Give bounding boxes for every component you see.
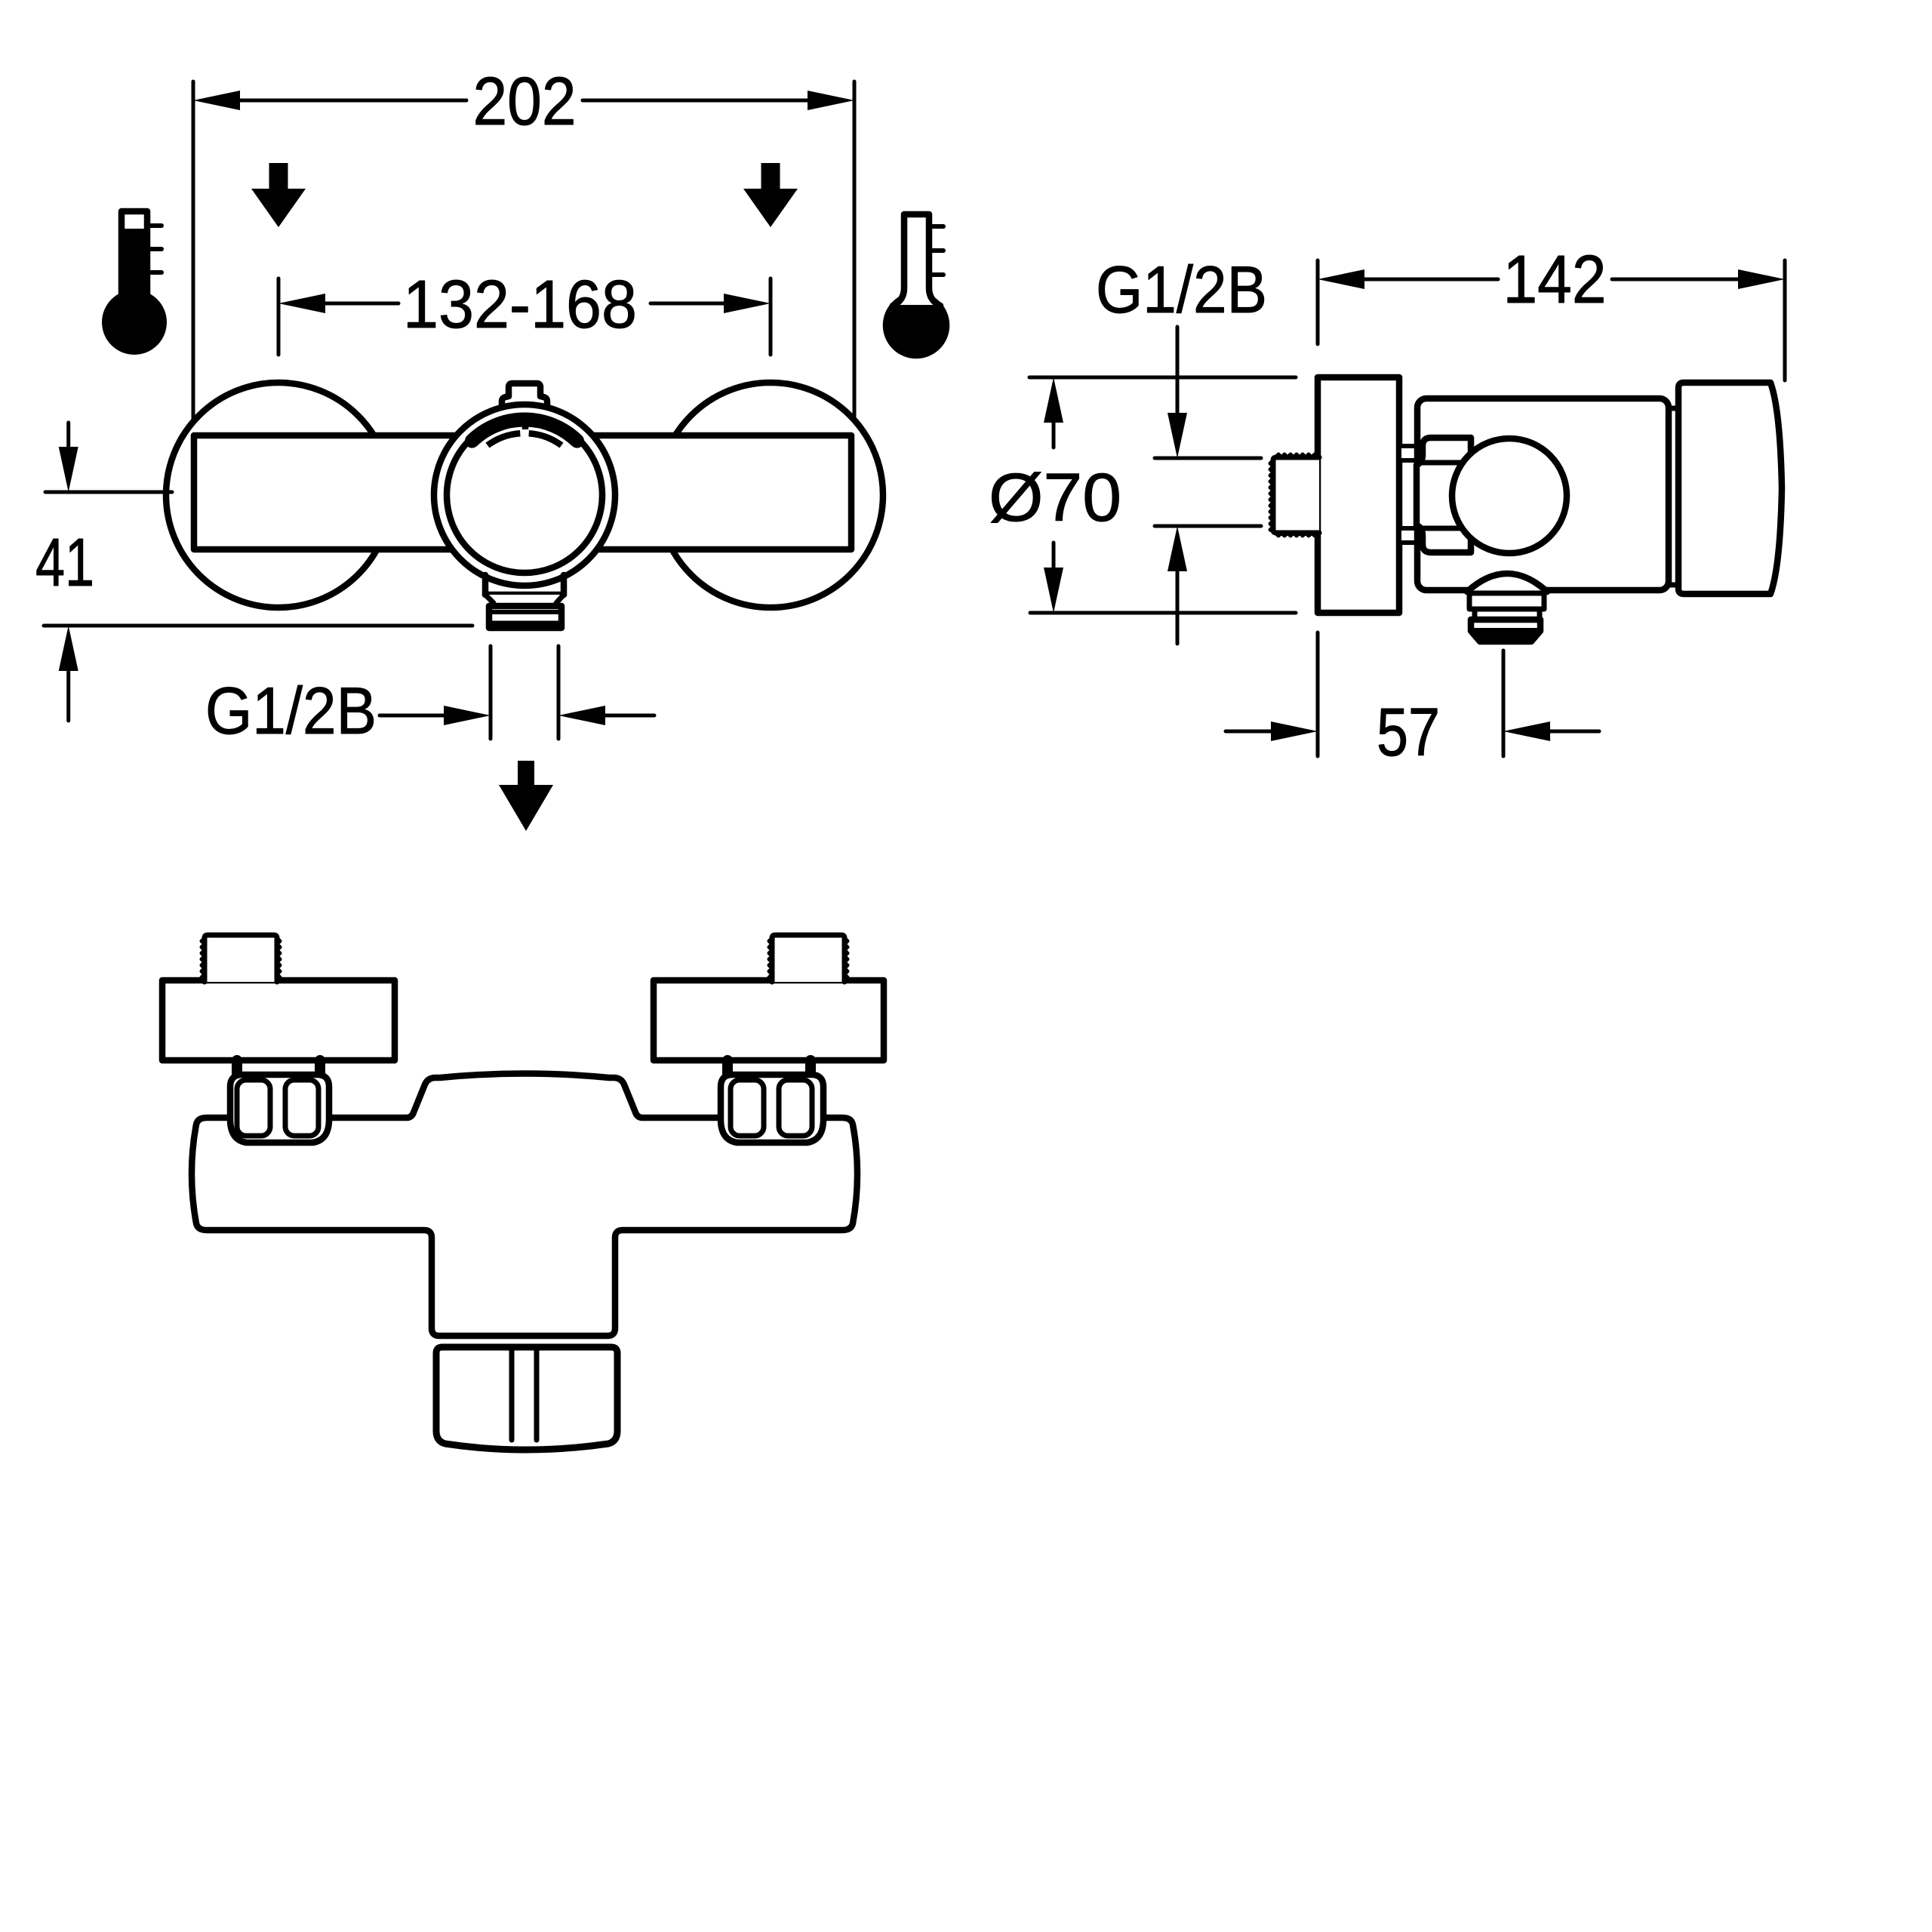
body T outline (top)	[192, 1074, 857, 1337]
outlet nut (top)	[436, 1347, 617, 1450]
svg-text:132-168: 132-168	[403, 267, 637, 343]
retaining C-ring thick arc (front)	[472, 420, 577, 441]
wall flange plate (side)	[1318, 377, 1399, 613]
C-ring inner thin arc left segment	[488, 433, 520, 445]
G1/2B callout arrows (side)	[1155, 327, 1261, 644]
outlet nut (front)	[489, 606, 561, 628]
outlet thread step (front)	[485, 595, 564, 606]
outlet nut (side)	[1471, 620, 1540, 641]
union hex nut left (top)	[230, 1075, 329, 1143]
valve body (side)	[1417, 398, 1669, 590]
dimension 202 arrowheads	[193, 91, 240, 110]
connector ticks body to knob (side)	[1669, 406, 1678, 411]
union hex nut right (top)	[721, 1075, 823, 1143]
C-ring inner thin arc right segment	[529, 433, 561, 445]
threaded pipe left (top)	[205, 935, 277, 982]
dimension 132-168 line	[278, 278, 771, 355]
thermometer hot (left)	[102, 211, 167, 355]
wall flange block right (top)	[654, 980, 884, 1060]
svg-text:G1/2B: G1/2B	[1096, 252, 1267, 327]
hot water inlet arrow (left)	[251, 163, 306, 227]
thread nubs left (top)	[232, 1060, 242, 1075]
C-ring split tick at 12 o'clock	[522, 417, 529, 429]
body bar (front)	[194, 435, 851, 549]
outlet dome (side)	[1467, 574, 1547, 592]
outlet step (side)	[1475, 609, 1540, 620]
valve cap tab (front)	[502, 383, 547, 407]
outlet neck (front)	[485, 575, 564, 595]
dim 41 line and arrows	[66, 423, 70, 721]
dim 57	[1226, 632, 1599, 756]
dimension 132-168 arrowheads	[278, 294, 325, 313]
inlet stubs between flange and body (side)	[1399, 446, 1419, 460]
temperature knob (side)	[1678, 383, 1782, 594]
thread nubs right (top)	[722, 1060, 733, 1075]
outlet flow arrow (front)	[499, 761, 553, 831]
dim 41 lower leader line	[44, 624, 472, 628]
wall flange block left (top)	[162, 980, 395, 1060]
threaded pipe right (top)	[772, 935, 844, 982]
svg-text:142: 142	[1503, 242, 1607, 318]
outlet collar (side)	[1469, 593, 1544, 609]
svg-text:41: 41	[35, 525, 94, 601]
wall flange right (front)	[658, 383, 883, 608]
central valve outer circle (front)	[434, 405, 615, 586]
dimension 202 line	[193, 82, 854, 423]
wall flange left (front)	[166, 383, 391, 608]
dim 41 upper leader line	[45, 491, 172, 494]
central valve inner circle (front)	[447, 417, 602, 573]
svg-text:202: 202	[473, 64, 577, 140]
dim Ø70 leaders	[1029, 377, 1296, 613]
diverter knob circle (side)	[1452, 438, 1567, 553]
G1/2B dim (front)	[380, 646, 654, 739]
threaded inlet pipe (side)	[1270, 454, 1319, 536]
svg-text:G1/2B: G1/2B	[205, 673, 377, 748]
svg-text:57: 57	[1377, 695, 1440, 771]
union hex nut (side)	[1417, 438, 1471, 552]
thermometer cold (right)	[886, 214, 946, 355]
cold water inlet arrow (right)	[743, 163, 798, 227]
svg-text:Ø70: Ø70	[989, 460, 1121, 536]
dim 142 line	[1318, 260, 1785, 380]
